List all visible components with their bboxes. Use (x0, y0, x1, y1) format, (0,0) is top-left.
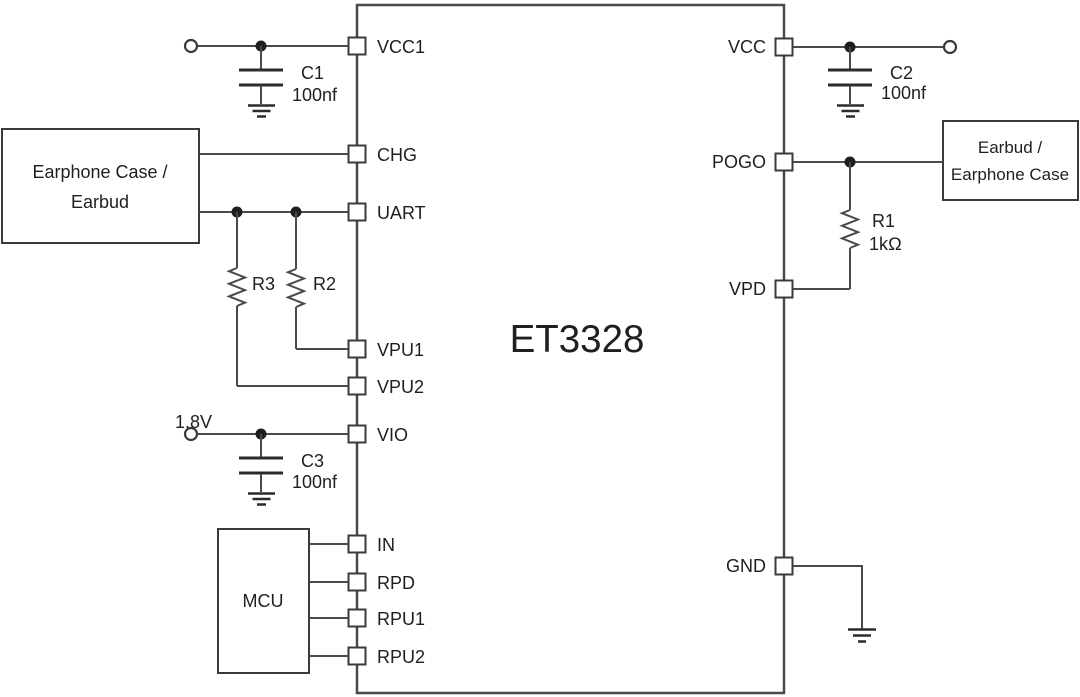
svg-text:UART: UART (377, 203, 426, 223)
svg-text:100nf: 100nf (881, 83, 927, 103)
svg-text:POGO: POGO (712, 152, 766, 172)
wire R1 to VPD (792, 288, 850, 290)
ground symbol GND pin (848, 630, 876, 642)
wire MCU to RPU2 (309, 655, 349, 657)
svg-text:100nf: 100nf (292, 472, 338, 492)
ground for C2 (837, 106, 864, 117)
svg-text:R3: R3 (252, 274, 275, 294)
svg-text:MCU: MCU (243, 591, 284, 611)
wire GND net (792, 566, 862, 629)
svg-text:100nf: 100nf (292, 85, 338, 105)
svg-text:IN: IN (377, 535, 395, 555)
value label C3 100nf (292, 451, 338, 492)
svg-text:CHG: CHG (377, 145, 417, 165)
svg-text:GND: GND (726, 556, 766, 576)
wire MCU to RPU1 (309, 617, 349, 619)
ground for C3 (248, 494, 275, 505)
IC U1 ET3328 body (357, 5, 784, 693)
terminal open circle VCC (944, 41, 956, 53)
svg-text:Earbud: Earbud (71, 192, 129, 212)
pin CHG (349, 146, 366, 163)
pin VPD (776, 281, 793, 298)
block Earphone Case / Earbud (2, 129, 199, 243)
wire CHG net (199, 153, 349, 155)
wire MCU to IN (309, 543, 349, 545)
pin UART (349, 204, 366, 221)
wire POGO net (792, 161, 943, 163)
wire VCC1 net (197, 45, 349, 47)
pin VPU2 (349, 378, 366, 395)
node junction dot on VCC net (845, 42, 856, 53)
pin VCC (776, 39, 793, 56)
capacitor C3 (239, 434, 283, 492)
svg-text:R1: R1 (872, 211, 895, 231)
svg-text:C3: C3 (301, 451, 324, 471)
svg-text:C2: C2 (890, 63, 913, 83)
svg-text:1kΩ: 1kΩ (869, 234, 902, 254)
svg-text:Earphone Case: Earphone Case (951, 165, 1069, 184)
svg-text:RPD: RPD (377, 573, 415, 593)
svg-text:Earbud /: Earbud / (978, 138, 1043, 157)
wire VIO net (197, 433, 349, 435)
value label C2 100nf (881, 63, 927, 103)
svg-text:C1: C1 (301, 63, 324, 83)
svg-text:VPU2: VPU2 (377, 377, 424, 397)
pin RPU2 (349, 648, 366, 665)
wire MCU to RPD (309, 581, 349, 583)
pin VPU1 (349, 341, 366, 358)
pin VCC1 (349, 38, 366, 55)
pin GND (776, 558, 793, 575)
svg-text:VIO: VIO (377, 425, 408, 445)
node junction dot on VIO net (256, 429, 267, 440)
node junction dot UART/R2 (291, 207, 302, 218)
svg-text:R2: R2 (313, 274, 336, 294)
node junction dot POGO/R1 (845, 157, 856, 168)
block MCU (218, 529, 309, 673)
terminal open circle 1.8V (185, 428, 197, 440)
svg-text:VPD: VPD (729, 279, 766, 299)
capacitor C2 (828, 47, 872, 104)
pin RPU1 (349, 610, 366, 627)
ground for C1 (248, 106, 275, 117)
pin VIO (349, 426, 366, 443)
svg-text:VPU1: VPU1 (377, 340, 424, 360)
wire VCC net right (792, 46, 944, 48)
resistor R3 (229, 212, 245, 386)
wire R3 to VPU2 (237, 385, 349, 387)
pin RPD (349, 574, 366, 591)
capacitor C1 (239, 46, 283, 104)
block Earbud / Earphone Case (943, 121, 1078, 200)
wire R2 to VPU1 (296, 348, 349, 350)
wire UART net (199, 211, 349, 213)
svg-text:RPU2: RPU2 (377, 647, 425, 667)
value label C1 100nf (292, 63, 338, 105)
svg-text:ET3328: ET3328 (510, 318, 645, 361)
resistor R1 (842, 162, 858, 289)
node junction dot UART/R3 (232, 207, 243, 218)
pin IN (349, 536, 366, 553)
node junction dot on VCC1 net (256, 41, 267, 52)
svg-text:RPU1: RPU1 (377, 609, 425, 629)
resistor R2 (288, 212, 304, 349)
svg-text:VCC1: VCC1 (377, 37, 425, 57)
label R1 1kΩ (869, 211, 902, 254)
svg-text:Earphone Case /: Earphone Case / (32, 162, 167, 182)
svg-text:VCC: VCC (728, 37, 766, 57)
pin POGO (776, 154, 793, 171)
terminal open circle VCC1 input (185, 40, 197, 52)
